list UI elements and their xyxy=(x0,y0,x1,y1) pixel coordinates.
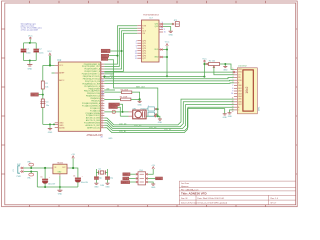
junction xyxy=(44,167,46,169)
pad X pot left xyxy=(206,63,208,65)
net label MOSI xyxy=(148,177,163,180)
junction xyxy=(72,167,74,169)
buzzer LS1 xyxy=(129,108,149,118)
DIS1 pin names xyxy=(238,69,242,112)
svg-text:R2 10k: R2 10k xyxy=(209,60,215,62)
svg-text:100u/16V: 100u/16V xyxy=(48,184,56,186)
junction xyxy=(59,186,61,188)
net label PIEZO2 xyxy=(109,106,121,116)
svg-text:QS2: QS2 xyxy=(155,26,159,28)
IC2 red pin numbers right xyxy=(101,63,103,129)
capacitor C3 (reset) xyxy=(40,95,49,125)
ground GND5 xyxy=(137,99,142,106)
capacitor C8 (output electrolytic) xyxy=(73,175,89,187)
svg-text:GND: GND xyxy=(223,70,228,72)
jumper JP1 xyxy=(161,20,180,27)
svg-text:LCD_RS: LCD_RS xyxy=(106,77,114,79)
net label text on bundle xyxy=(119,123,171,133)
capacitor C7 (input electrolytic) xyxy=(40,168,56,187)
junction xyxy=(49,64,51,66)
capacitor C2 xyxy=(34,49,44,55)
note text (blue annotation) xyxy=(21,24,42,32)
IC3 right pin stubs xyxy=(159,24,163,57)
IC2 right pin stubs xyxy=(101,64,105,128)
svg-text:22p: 22p xyxy=(110,177,113,179)
LCD display DIS1 xyxy=(237,65,260,113)
wire bus IC2 to IC3 (4 wires up) xyxy=(104,26,137,72)
svg-text:GND: GND xyxy=(27,68,32,70)
svg-text:OUT: OUT xyxy=(62,167,66,169)
svg-text:16: 16 xyxy=(101,97,103,99)
svg-text:8: 8 xyxy=(232,88,233,90)
svg-text:AGND: AGND xyxy=(59,126,65,129)
wire IC2 to LCD VDD xyxy=(104,71,234,73)
test pad TP2 xyxy=(27,171,33,180)
svg-text:VDD: VDD xyxy=(154,49,159,51)
pad circle P1 xyxy=(112,110,115,113)
wire IC2 pin to LCD RW xyxy=(104,79,234,82)
ground GND4 (LCD VSS) xyxy=(223,67,228,72)
wire input xyxy=(23,167,50,169)
junction xyxy=(29,60,31,62)
title block xyxy=(179,181,295,205)
ground GND11 xyxy=(223,114,228,119)
svg-text:11: 11 xyxy=(135,58,137,60)
wire buzzer pin2 xyxy=(120,115,128,117)
junction xyxy=(166,56,168,58)
wire top rail xyxy=(24,42,37,64)
net label STR xyxy=(101,58,113,74)
junction xyxy=(139,98,141,100)
svg-text:20: 20 xyxy=(102,80,104,82)
DIS1 red pin numbers xyxy=(232,68,234,113)
svg-text:20: 20 xyxy=(101,107,103,109)
junction xyxy=(203,76,205,78)
resistor R1 xyxy=(41,65,48,94)
svg-text:100u/16V: 100u/16V xyxy=(81,182,89,184)
ground GND6 xyxy=(158,116,163,124)
wire LCD backlight C xyxy=(228,110,234,118)
DIS1 pin stubs xyxy=(234,69,238,110)
wire rail 2 to LCD RS xyxy=(104,78,234,79)
svg-text:VCC: VCC xyxy=(165,41,170,43)
supply VCC1 xyxy=(28,36,33,43)
svg-text:DATA: DATA xyxy=(102,50,108,53)
svg-text:LCD_D7: LCD_D7 xyxy=(164,129,171,131)
svg-text:AREF/LCD_BL: AREF/LCD_BL xyxy=(87,127,100,130)
svg-text:CLK: CLK xyxy=(102,56,107,58)
svg-text:LCD_D4: LCD_D4 xyxy=(119,123,126,125)
svg-text:12: 12 xyxy=(101,87,103,89)
svg-text:RESET: RESET xyxy=(122,182,129,184)
supply VCC3 xyxy=(165,41,170,46)
svg-text:AREF: AREF xyxy=(59,72,65,75)
svg-text:24: 24 xyxy=(102,94,104,96)
svg-text:9: 9 xyxy=(232,91,233,93)
svg-text:C6: C6 xyxy=(73,175,75,177)
wire VCC3 down xyxy=(163,46,167,76)
svg-text:28: 28 xyxy=(101,136,103,138)
capacitor C8 xyxy=(105,177,113,183)
trimmer R2 xyxy=(209,60,220,67)
polarity arrow xyxy=(154,115,157,117)
svg-text:GND: GND xyxy=(228,116,233,118)
ground GND10 xyxy=(57,187,62,196)
IC3 blue pin numbers xyxy=(135,22,163,60)
svg-text:10: 10 xyxy=(101,82,103,84)
svg-text:VIN-: VIN- xyxy=(27,178,31,180)
svg-text:3: 3 xyxy=(101,65,102,67)
svg-text:R/W: R/W xyxy=(238,80,242,82)
svg-text:17: 17 xyxy=(101,99,103,101)
ground GND7 xyxy=(94,183,99,188)
svg-text:1: 1 xyxy=(233,68,234,70)
svg-text:7: 7 xyxy=(232,85,233,87)
ground GND8 xyxy=(105,183,110,188)
wire buzzer to pad cluster xyxy=(146,115,158,117)
pad X on IC3 pins xyxy=(160,48,162,58)
junction xyxy=(166,49,168,51)
wire buzzer pin1 xyxy=(104,111,128,113)
wire stub row90 xyxy=(104,89,115,91)
svg-text:Rev: 1.0: Rev: 1.0 xyxy=(271,198,279,200)
svg-text:PIEZO-: PIEZO- xyxy=(109,107,116,109)
junction xyxy=(103,76,105,78)
svg-text:2: 2 xyxy=(233,71,234,73)
ground GND1 xyxy=(27,65,32,71)
regulator IC1 xyxy=(51,162,69,176)
wire ground rail xyxy=(37,186,78,188)
junction xyxy=(157,115,159,117)
supply +5V (ISP) xyxy=(148,165,156,174)
wire pot net xyxy=(204,62,234,76)
wire crystal right xyxy=(106,169,108,177)
svg-text:3: 3 xyxy=(233,73,234,75)
supply VCC4 (pot) xyxy=(202,59,207,63)
svg-text:10: 10 xyxy=(231,93,233,95)
wire output xyxy=(69,168,78,178)
resistor R3 xyxy=(104,90,139,100)
svg-text:PWR: PWR xyxy=(17,176,22,178)
svg-text:26: 26 xyxy=(101,122,103,124)
svg-text:23: 23 xyxy=(101,114,103,116)
ground GND9 xyxy=(148,182,156,189)
svg-text:100n: 100n xyxy=(39,53,43,55)
svg-text:AVCC: AVCC xyxy=(59,79,65,82)
svg-text:11: 11 xyxy=(101,85,103,87)
svg-text:100n: 100n xyxy=(26,53,30,55)
junction xyxy=(122,111,124,113)
svg-text:GND: GND xyxy=(94,186,99,188)
svg-text:LCD_D6: LCD_D6 xyxy=(149,127,156,129)
net label SCK2 xyxy=(123,177,136,180)
net label RESET xyxy=(31,93,43,97)
wire rail VCC (y76.6) xyxy=(104,76,204,78)
junction xyxy=(42,94,44,96)
svg-text:LCD16X2: LCD16X2 xyxy=(238,65,248,67)
svg-text:DB4: DB4 xyxy=(238,96,242,98)
test point TP4 xyxy=(148,112,158,116)
svg-text:24: 24 xyxy=(101,117,103,119)
svg-text:21: 21 xyxy=(102,73,104,75)
junction xyxy=(44,186,46,188)
svg-text:GND: GND xyxy=(168,34,173,36)
junction xyxy=(29,42,31,44)
svg-text:15: 15 xyxy=(164,32,166,34)
svg-text:25: 25 xyxy=(101,119,103,121)
crystal group xyxy=(94,168,113,188)
svg-text:Initial C.E.N. Intent 1914+/-: Initial C.E.N. Intent 1914+/-1+19 409 (V… xyxy=(181,201,228,204)
decoupling caps group xyxy=(21,36,44,71)
svg-text:16: 16 xyxy=(232,111,234,113)
svg-text:VCC: VCC xyxy=(59,65,64,67)
svg-text:GND: GND xyxy=(137,104,142,106)
header SV1 xyxy=(136,170,148,185)
svg-text:LCD_BL: LCD_BL xyxy=(119,131,126,133)
supply VCC2 (above IC2) xyxy=(47,51,52,55)
svg-text:C5: C5 xyxy=(40,177,42,179)
svg-text:GND: GND xyxy=(108,138,113,140)
svg-text:of ICs as possible!: of ICs as possible! xyxy=(21,30,39,32)
svg-text:IC2: IC2 xyxy=(57,59,62,62)
wire crystal left xyxy=(96,169,98,177)
svg-text:2: 2 xyxy=(101,63,102,65)
wire reset to IC2 xyxy=(43,123,55,125)
DIS1 blue pin numbers xyxy=(231,85,233,95)
svg-text:GND: GND xyxy=(48,132,53,134)
junction xyxy=(49,123,51,125)
wire VCC to IC2 xyxy=(43,56,55,66)
svg-text:27: 27 xyxy=(101,124,103,126)
svg-text:GND: GND xyxy=(105,186,110,188)
svg-text:STR: STR xyxy=(102,59,107,61)
svg-text:DB1: DB1 xyxy=(238,88,242,90)
ISP group xyxy=(121,165,163,189)
wire input low xyxy=(23,172,37,188)
svg-text:22: 22 xyxy=(101,112,103,114)
supply +5V (reg) xyxy=(71,154,75,168)
capacitor C7 xyxy=(94,177,102,183)
svg-text:R4 220R: R4 220R xyxy=(120,97,128,99)
schematic frame xyxy=(2,1,298,207)
wire IC2 pin to LCD E xyxy=(104,82,234,85)
svg-text:DB7: DB7 xyxy=(238,104,242,106)
svg-text:GND: GND xyxy=(151,187,156,189)
power supply group xyxy=(13,154,89,196)
junction xyxy=(224,63,226,65)
net label RESET2 xyxy=(121,181,136,184)
ground GND2 xyxy=(48,124,53,133)
svg-text:7: 7 xyxy=(101,75,102,77)
svg-text:16x2: 16x2 xyxy=(245,86,249,93)
svg-text:SER_OUT: SER_OUT xyxy=(136,86,146,88)
svg-text:VIN+: VIN+ xyxy=(27,162,31,164)
svg-text:MISO: MISO xyxy=(123,174,128,176)
IC2 left pin names xyxy=(59,65,65,129)
connector X1 xyxy=(13,164,23,178)
ground GND3 (IC3 pin) xyxy=(159,25,173,36)
svg-text:78L05Z: 78L05Z xyxy=(57,162,64,164)
IC2 right pin names xyxy=(82,64,101,130)
IC2 blue pin numbers xyxy=(102,73,104,97)
svg-text:19: 19 xyxy=(101,104,103,106)
test pad TP1 xyxy=(27,162,33,169)
svg-text:1: 1 xyxy=(148,105,149,107)
wire AREF stub xyxy=(52,72,55,74)
svg-text:28: 28 xyxy=(101,126,103,128)
svg-text:DB3: DB3 xyxy=(238,93,242,95)
svg-text:Doc: M: Doc: M xyxy=(181,198,188,200)
svg-text:HCF4094M.653: HCF4094M.653 xyxy=(143,15,159,17)
svg-text:16M: 16M xyxy=(100,185,104,187)
svg-text:10n: 10n xyxy=(46,105,49,107)
svg-text:21: 21 xyxy=(101,109,103,111)
svg-text:DB2: DB2 xyxy=(238,91,242,93)
svg-text:R3 220R: R3 220R xyxy=(121,90,129,92)
svg-text:W: 0.7: W: 0.7 xyxy=(271,202,278,204)
IC2 left pin stubs xyxy=(55,65,59,127)
svg-text:Jan Daer: Jan Daer xyxy=(181,183,189,185)
svg-text:DB5: DB5 xyxy=(238,99,242,101)
svg-text:Date: Wed 24 Feb 2010 19:41: Date: Wed 24 Feb 2010 19:41 xyxy=(198,197,226,200)
net label MISO xyxy=(123,173,136,176)
capacitor C1 xyxy=(21,49,31,55)
svg-text:PKM22E: PKM22E xyxy=(141,108,149,110)
microcontroller IC2 xyxy=(57,59,113,140)
net label DATA xyxy=(101,54,118,57)
svg-text:GND: GND xyxy=(154,57,159,59)
svg-text:4: 4 xyxy=(233,76,234,78)
svg-text:MOSI: MOSI xyxy=(156,178,161,180)
shift register IC3 xyxy=(142,15,160,62)
IC3 left pin stubs xyxy=(137,26,141,59)
junction xyxy=(53,124,55,126)
svg-text:18: 18 xyxy=(101,102,103,104)
frame ticks xyxy=(1,1,297,207)
IC3 pin names xyxy=(142,25,146,60)
svg-text:GND: GND xyxy=(158,122,163,124)
svg-text:10k: 10k xyxy=(45,87,48,89)
junction xyxy=(203,63,205,65)
svg-text:4: 4 xyxy=(101,68,102,70)
resistor R4 xyxy=(104,97,139,101)
svg-text:Hjemme: Hjemme xyxy=(181,186,189,188)
svg-text:DB0: DB0 xyxy=(238,85,242,87)
svg-text:22p: 22p xyxy=(99,177,102,179)
pad X on LCD pin2 xyxy=(233,71,235,73)
svg-text:LCD_D5: LCD_D5 xyxy=(134,125,141,127)
svg-text:QP7: QP7 xyxy=(142,58,146,60)
svg-text:DB6: DB6 xyxy=(238,101,242,103)
svg-text:GND: GND xyxy=(58,194,63,196)
junction xyxy=(166,75,168,77)
svg-text:Title: ADNE50 VFD: Title: ADNE50 VFD xyxy=(181,192,207,196)
net label PIEZO1 xyxy=(109,103,123,112)
test point TP3 xyxy=(148,105,159,111)
wire bundle IC2 to LCD data xyxy=(104,99,234,133)
net label SCK xyxy=(101,49,122,53)
wire regulator gnd xyxy=(59,176,61,187)
wire loop via IC3 gnd net xyxy=(104,74,158,116)
